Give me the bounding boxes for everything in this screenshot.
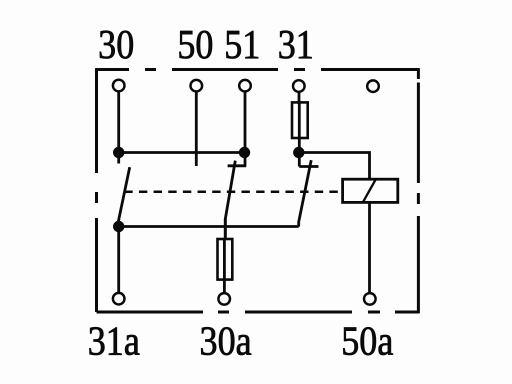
- wire: fixed contact stub below node A: [117, 153, 120, 164]
- wire: through fuse F1 down to node C: [298, 101, 301, 153]
- svg-text:30a: 30a: [200, 319, 252, 364]
- wire: bottom bus node D to switch S3: [119, 225, 299, 228]
- svg-text:51: 51: [224, 23, 260, 68]
- enclosure dashed border: bottom edge: [97, 311, 419, 314]
- enclosure dashed border: right edge: [417, 68, 420, 313]
- terminal 31 circle: [293, 80, 305, 92]
- wire: terminal 50 down stub: [195, 92, 198, 166]
- relay coil K1 body: [343, 179, 398, 202]
- wire: switch S3 fixed contact L (down then right): [299, 153, 318, 167]
- wire: terminal 31 down to fuse F1: [298, 91, 301, 104]
- wire: terminal 51 down to node B: [244, 92, 247, 153]
- terminal 50a circle: [364, 293, 376, 305]
- terminal 51 circle: [239, 80, 251, 92]
- switch S2 lever: [225, 161, 235, 239]
- svg-text:50: 50: [177, 23, 213, 68]
- enclosure dashed border: left edge: [95, 68, 98, 312]
- terminal 30 circle: [113, 80, 125, 92]
- unlabeled top-right terminal circle: [367, 80, 379, 92]
- mechanical link dashed line: [124, 191, 341, 194]
- terminal 30a circle: [218, 293, 230, 305]
- wire: node C to relay coil (right then down): [299, 153, 370, 180]
- wire: bus node A to node B at y=152.5: [119, 151, 245, 154]
- node B junction dot: [239, 147, 250, 158]
- wire: node D down to terminal 31a: [117, 227, 120, 293]
- switch S3 lever: [299, 160, 312, 226]
- terminal 50 circle: [191, 80, 203, 92]
- terminal 31a circle: [113, 293, 125, 305]
- node A junction dot: [113, 147, 124, 158]
- switch S1 lever: [118, 167, 130, 225]
- wire: through fuse F2 down to terminal 30a: [223, 239, 226, 293]
- svg-text:31a: 31a: [88, 319, 140, 364]
- enclosure dashed border: top edge: [97, 68, 419, 71]
- node C junction dot: [293, 147, 304, 158]
- svg-text:50a: 50a: [341, 319, 393, 364]
- fuse F1 body: [292, 102, 308, 138]
- wire: switch S2 fixed contact L (down then left): [228, 153, 246, 167]
- wire: relay coil down to terminal 50a: [368, 202, 371, 293]
- wire: switch S2 lever down to fuse F2: [224, 219, 227, 239]
- svg-text:31: 31: [278, 23, 314, 68]
- wire: terminal 30 down to node A: [117, 91, 120, 152]
- fuse F2 body: [218, 239, 233, 280]
- svg-text:30: 30: [98, 23, 134, 68]
- relay coil K1 diagonal: [363, 179, 376, 202]
- node D junction dot: [113, 221, 124, 232]
